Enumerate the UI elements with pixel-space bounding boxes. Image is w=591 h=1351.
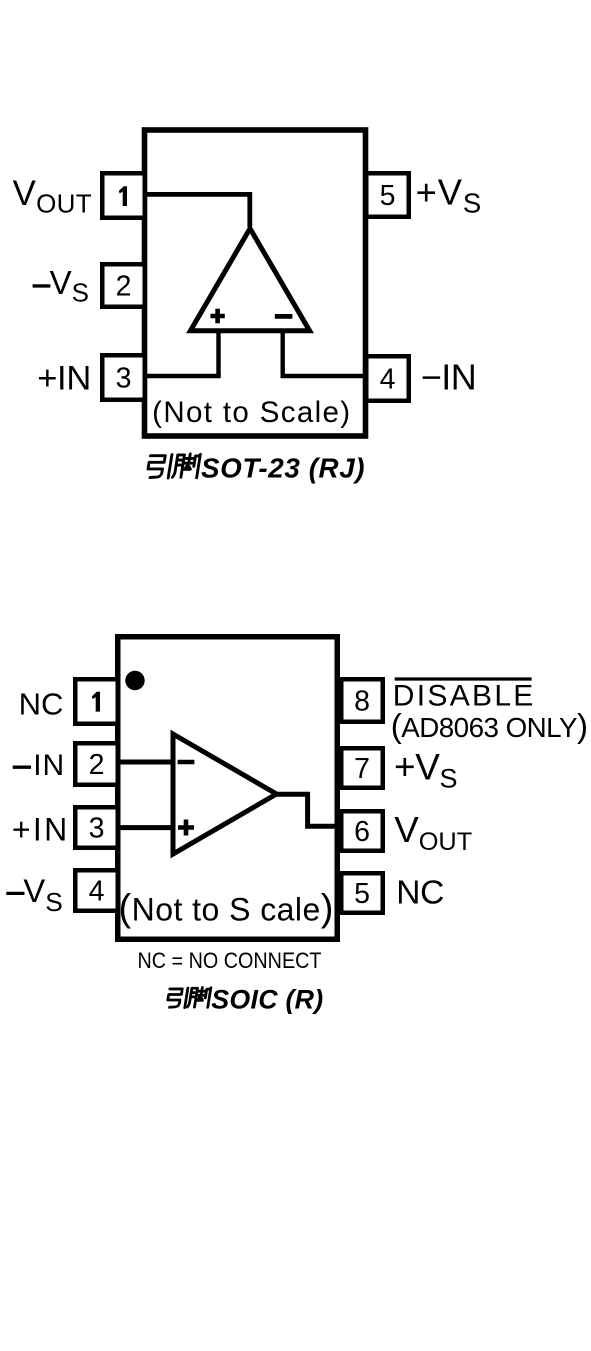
glyph 脚 (caption 2) <box>187 988 210 1008</box>
pin 1 number <box>119 186 127 206</box>
wire +IN vertical <box>216 331 220 376</box>
wire op-amp output to pin6 <box>276 794 340 826</box>
op-amp minus input symbol <box>275 314 293 319</box>
glyph 脚 (caption 1) <box>172 454 200 478</box>
svg-text:8: 8 <box>354 686 370 718</box>
svg-text:5: 5 <box>380 180 396 212</box>
op-amp A1 triangle <box>190 229 309 331</box>
svg-text:SOT-23 (RJ): SOT-23 (RJ) <box>201 453 365 484</box>
svg-text:6: 6 <box>354 816 370 848</box>
svg-text:+IN: +IN <box>12 811 70 847</box>
pin 6 box <box>341 811 383 851</box>
pin 7 box <box>341 748 383 788</box>
svg-text:NC: NC <box>19 686 64 721</box>
package body U1 (SOT-23) <box>145 130 366 436</box>
label DISABLE overline <box>395 677 532 680</box>
svg-text:IN: IN <box>33 749 65 782</box>
package body U2 (SOIC) <box>118 637 338 940</box>
pin 5 box <box>366 173 409 217</box>
caption: 引脚 glyphs SOIC (R) <box>167 988 211 1008</box>
wire pin3 to +IN <box>120 825 172 830</box>
svg-text:(Not to Scale): (Not to Scale) <box>152 396 351 429</box>
svg-text:4: 4 <box>89 875 105 907</box>
op-amp A2 triangle <box>173 734 277 854</box>
pin 3 box <box>102 355 145 400</box>
pin 2 box <box>75 743 118 785</box>
svg-text:NC: NC <box>396 874 444 911</box>
pin 1 box <box>75 679 118 724</box>
pin 8 box <box>341 679 383 722</box>
wire pin3 horizontal <box>147 374 221 379</box>
op-amp minus input symbol <box>178 760 195 765</box>
wire -IN vertical <box>281 331 285 376</box>
label -IN pin2 <box>13 766 31 769</box>
glyph 引 (caption 2) <box>167 988 188 1008</box>
wire pin1 to op-amp apex <box>147 194 250 227</box>
pin 1 box <box>102 173 145 218</box>
pin 5 box <box>341 873 383 913</box>
svg-text:3: 3 <box>116 362 132 394</box>
svg-text:DISABLE: DISABLE <box>393 680 536 713</box>
op-amp plus input symbol <box>210 309 224 323</box>
label -VS pin4 <box>6 892 24 895</box>
pin 1 indicator dot <box>125 671 144 690</box>
svg-text:(AD8063 ONLY): (AD8063 ONLY) <box>391 707 588 744</box>
svg-text:2: 2 <box>116 270 132 302</box>
pin 3 box <box>75 807 118 848</box>
svg-text:SOIC (R): SOIC (R) <box>211 985 323 1015</box>
pin 1 number <box>92 692 100 712</box>
svg-text:2: 2 <box>89 749 105 781</box>
caption: 引脚 glyphs (hand drawn) SOT-23 (RJ) <box>147 454 201 478</box>
svg-text:4: 4 <box>380 363 396 395</box>
svg-text:5: 5 <box>354 878 370 910</box>
glyph 引 (caption 1) <box>147 455 172 478</box>
svg-text:+IN: +IN <box>37 359 91 397</box>
pin 4 box <box>75 870 118 911</box>
svg-text:(Not to S cale): (Not to S cale) <box>119 888 334 930</box>
svg-text:NC = NO CONNECT: NC = NO CONNECT <box>138 948 322 973</box>
wire pin4 horizontal <box>281 374 365 379</box>
pin 2 box <box>102 264 145 307</box>
op-amp plus input symbol <box>178 820 194 836</box>
pin 4 box <box>366 356 409 401</box>
wire pin2 to -IN <box>120 760 172 765</box>
svg-text:−IN: −IN <box>421 356 477 397</box>
svg-text:3: 3 <box>89 812 105 844</box>
label -VS pin2 <box>33 284 51 287</box>
svg-text:7: 7 <box>354 753 370 785</box>
